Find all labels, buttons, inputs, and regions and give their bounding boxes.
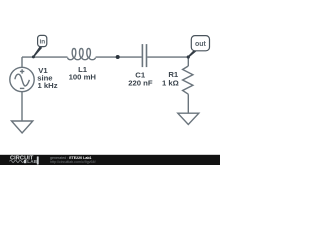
svg-text:220 nF: 220 nF <box>128 79 153 88</box>
svg-text:in: in <box>39 39 45 46</box>
svg-text:1 kHz: 1 kHz <box>38 81 58 90</box>
svg-text:100 mH: 100 mH <box>69 73 97 82</box>
svg-text:LAB: LAB <box>27 159 37 164</box>
svg-text:http://circuitlab.com/c/9gv54f: http://circuitlab.com/c/9gv54f <box>50 160 96 164</box>
svg-text:1 kΩ: 1 kΩ <box>162 79 179 88</box>
svg-text:R1: R1 <box>168 70 179 79</box>
svg-text:out: out <box>195 41 207 48</box>
